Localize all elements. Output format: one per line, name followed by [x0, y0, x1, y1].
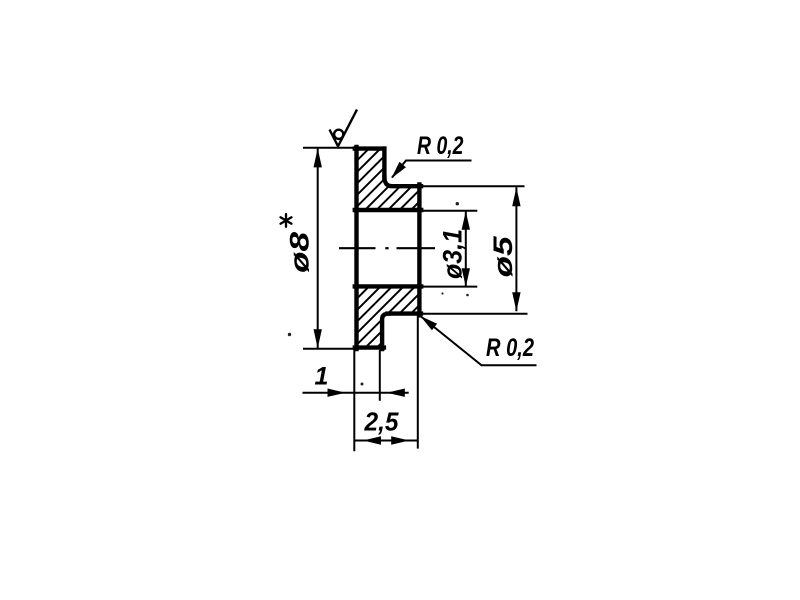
flange left face [354, 147, 358, 349]
leader line upper R0,2 [392, 161, 472, 178]
part outline (thick) [355, 147, 421, 349]
dia5 bottom arrow [512, 292, 520, 311]
flange upper right face [382, 149, 386, 179]
extension line flange step below [379, 350, 381, 401]
dim 2,5 right arrow (points right) [391, 436, 409, 444]
centerline (axis) [339, 247, 435, 249]
dia3,1 bottom arrow [462, 268, 470, 287]
flange bottom face [355, 345, 384, 349]
flange top face [355, 146, 385, 150]
hub right face [417, 185, 421, 316]
dimension line dia 5 [515, 187, 517, 311]
svg-text:1: 1 [315, 363, 329, 391]
svg-text:ø8: ø8 [285, 232, 315, 273]
asterisk star of dia 8 label [281, 214, 292, 227]
hub bottom extension line (right) [421, 313, 528, 315]
dimension line dia 3,1 [465, 211, 467, 287]
hub top extension line (right) [421, 185, 525, 187]
hole bottom extension line [421, 286, 477, 288]
upper R0,2 leader arrowhead [391, 162, 406, 179]
dimension line 2,5 [354, 440, 418, 442]
thin extension and dimension lines [303, 148, 537, 452]
top extension line (flange top, left) [303, 147, 356, 149]
hub bottom face [388, 311, 421, 315]
hatching lower section [209, 140, 620, 355]
svg-text:ø3,1: ø3,1 [438, 229, 468, 279]
dim 1 left arrow (points right) [328, 389, 346, 397]
dimension line dia 8 [317, 148, 319, 349]
extension line flange left face below [353, 349, 355, 451]
svg-text:2,5: 2,5 [364, 407, 399, 437]
dimension line 1 [303, 392, 409, 394]
hole top extension line [421, 210, 477, 212]
hole bottom edge [355, 284, 421, 288]
extension line hub right face below [417, 314, 419, 449]
hatching upper section [151, 140, 573, 355]
surface finish symbol (machined, with circle) [330, 110, 358, 147]
svg-text:R 0,2: R 0,2 [486, 334, 534, 362]
scan specks [288, 202, 469, 386]
dia8 bottom arrow [314, 329, 322, 348]
upper fillet R0.2 and hub top face [384, 177, 421, 186]
bottom extension line (flange bottom, left) [303, 348, 356, 350]
dim 1 right arrow (points left) [387, 389, 405, 397]
lower fillet R0.2 and flange lower right face [382, 314, 388, 349]
dia3,1 top arrow [462, 211, 470, 230]
dia8 top arrow [314, 148, 322, 167]
dia5 top arrow [512, 187, 520, 206]
svg-text:R 0,2: R 0,2 [417, 132, 464, 160]
svg-text:ø5: ø5 [488, 235, 518, 277]
hole top edge [355, 208, 421, 212]
lower R0,2 leader arrowhead [420, 316, 437, 330]
arrowheads [314, 148, 521, 444]
leader line lower R0,2 [421, 317, 537, 366]
dim 2,5 left arrow (points left) [363, 436, 381, 444]
